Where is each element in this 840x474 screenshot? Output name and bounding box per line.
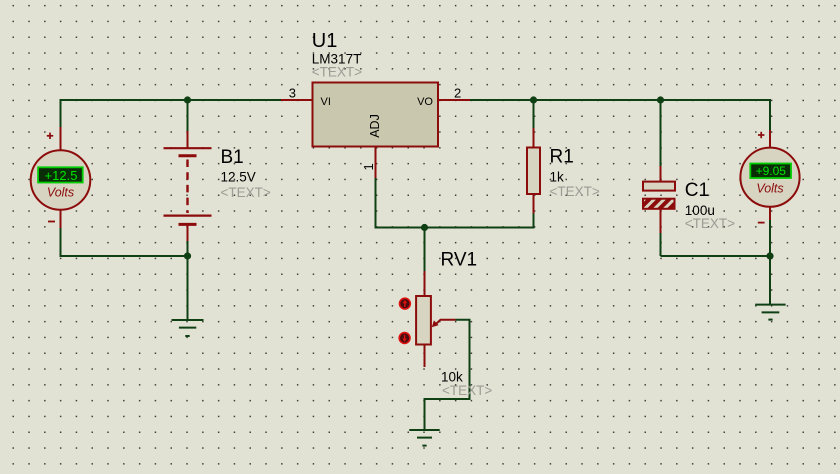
svg-text:<TEXT>: <TEXT> bbox=[221, 185, 271, 200]
battery B1 pin bottom (red) bbox=[187, 226, 189, 242]
voltmeter VM2 pin plus (red) bbox=[769, 130, 771, 149]
svg-text:<TEXT>: <TEXT> bbox=[442, 383, 492, 398]
ground symbol RV1 bbox=[409, 430, 439, 446]
wire battery bottom to ground bbox=[187, 241, 189, 320]
U1 pin 1 (ADJ) lead bbox=[375, 147, 377, 179]
wire R1 top drop bbox=[533, 100, 535, 129]
wire ADJ net horizontal to R1 bottom bbox=[375, 227, 534, 229]
junction RV1 top node bbox=[421, 224, 428, 231]
potentiometer RV1 decrement button bbox=[399, 333, 410, 344]
svg-text:RV1: RV1 bbox=[441, 249, 478, 270]
potentiometer RV1 body bbox=[416, 296, 431, 345]
wire RV1 top drop bbox=[424, 228, 426, 272]
potentiometer RV1 pin bottom (red, open) bbox=[424, 344, 426, 367]
svg-text:<TEXT>: <TEXT> bbox=[550, 184, 600, 199]
battery B1 cell symbol bbox=[164, 148, 212, 224]
junction R1 top node bbox=[530, 96, 537, 103]
svg-text:U1: U1 bbox=[312, 30, 338, 52]
junction C1 top node bbox=[657, 96, 664, 103]
svg-text:VI: VI bbox=[321, 96, 331, 108]
U1 pin 2 (VO) lead bbox=[438, 99, 470, 101]
ground symbol right bbox=[755, 305, 785, 320]
voltmeter VM1 LCD display bbox=[38, 167, 83, 182]
svg-text:+12.5: +12.5 bbox=[45, 168, 78, 183]
wire top bus right from U1 VO to voltmeter VM2 bbox=[470, 100, 770, 131]
svg-text:ADJ: ADJ bbox=[368, 114, 382, 138]
op-amp U1 body (LM317T regulator box) bbox=[313, 83, 439, 147]
battery B1 pin top (red) bbox=[187, 131, 189, 148]
voltmeter VM1 body bbox=[31, 150, 91, 210]
svg-text:3: 3 bbox=[289, 85, 296, 100]
junction battery top node bbox=[184, 96, 191, 103]
resistor R1 pin top (red) bbox=[533, 128, 535, 148]
potentiometer RV1 pin top (red) bbox=[424, 271, 426, 297]
voltmeter VM2 minus marker bbox=[758, 222, 765, 224]
svg-text:R1: R1 bbox=[550, 146, 574, 167]
wire RV1 wiper green segment bbox=[425, 320, 470, 430]
wire C1 bottom to ground net horizontal bbox=[661, 255, 771, 257]
wire C1 bottom drop bbox=[660, 233, 662, 257]
capacitor C1 top plate bbox=[643, 182, 675, 191]
voltmeter VM2 body bbox=[740, 148, 799, 207]
voltmeter VM2 LCD display bbox=[750, 164, 791, 179]
wire battery top drop bbox=[187, 100, 189, 132]
svg-text:B1: B1 bbox=[221, 147, 244, 168]
svg-text:Volts: Volts bbox=[756, 181, 783, 195]
capacitor C1 pin top (red) bbox=[660, 166, 662, 182]
capacitor C1 bottom plate (polarised hatch) bbox=[643, 199, 675, 209]
wire R1 bottom drop bbox=[533, 213, 535, 229]
wire ADJ net vertical below U1 bbox=[375, 178, 377, 228]
svg-text:<TEXT>: <TEXT> bbox=[685, 216, 735, 231]
svg-text:12.5V: 12.5V bbox=[221, 170, 256, 185]
junction VM2 ground node bbox=[766, 252, 773, 259]
wire VM2 node to ground bbox=[769, 256, 771, 304]
svg-text:VO: VO bbox=[417, 96, 433, 108]
svg-text:1k: 1k bbox=[550, 169, 565, 184]
potentiometer RV1 increment button bbox=[400, 298, 411, 309]
junction battery bottom node bbox=[184, 252, 191, 259]
resistor R1 body bbox=[527, 148, 540, 195]
voltmeter VM2 plus marker bbox=[758, 132, 764, 138]
svg-text:<TEXT>: <TEXT> bbox=[312, 65, 362, 80]
voltmeter VM1 minus marker bbox=[48, 221, 55, 223]
voltmeter VM1 plus marker bbox=[47, 133, 53, 139]
wire voltmeter VM1 minus drop bbox=[61, 228, 188, 257]
U1 pin 3 (VI) lead bbox=[281, 99, 313, 101]
svg-text:Volts: Volts bbox=[47, 186, 74, 200]
resistor R1 pin bottom (red) bbox=[533, 194, 535, 214]
svg-text:C1: C1 bbox=[685, 180, 709, 201]
capacitor C1 pin bottom (red) bbox=[660, 209, 662, 234]
ground symbol battery bbox=[172, 320, 204, 336]
voltmeter VM2 pin minus (red) bbox=[769, 207, 771, 221]
wire voltmeter VM2 minus drop bbox=[769, 220, 771, 257]
voltmeter VM1 pin minus (red) bbox=[60, 209, 62, 229]
svg-text:1: 1 bbox=[361, 163, 376, 170]
wire C1 top drop bbox=[660, 100, 662, 166]
potentiometer RV1 wiper arrow (red) bbox=[432, 320, 456, 328]
voltmeter VM1 pin plus (red) bbox=[60, 127, 62, 151]
svg-text:+9.05: +9.05 bbox=[756, 164, 787, 178]
svg-text:2: 2 bbox=[454, 86, 461, 101]
wire top bus from voltmeter VM1 corner to U1 VI bbox=[61, 100, 282, 128]
